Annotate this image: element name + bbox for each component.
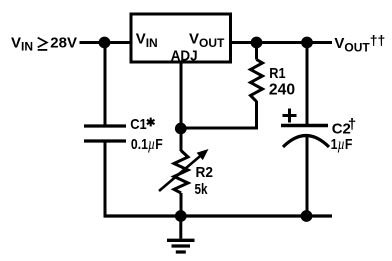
node E junction dot (ground) (175, 210, 187, 222)
svg-text:1µF: 1µF (331, 136, 353, 153)
R2 wiper arrow (159, 149, 209, 191)
capacitor C2 (281, 126, 329, 148)
wire C2 down to ground rail (306, 136, 309, 216)
C1 asterisk footnote mark (147, 118, 155, 127)
ground symbol (167, 216, 195, 252)
svg-text:VIN: VIN (136, 31, 158, 50)
svg-text:C1: C1 (130, 116, 147, 133)
svg-text:VOUT††: VOUT†† (334, 32, 385, 54)
svg-text:5k: 5k (195, 181, 209, 198)
resistor R1 (251, 60, 263, 102)
wire C1 down to ground rail (104, 141, 107, 218)
wire ADJ pin down (180, 62, 183, 129)
node C junction dot (C2) (301, 37, 313, 49)
node A junction dot (input / C1) (99, 37, 111, 49)
wire input to regulator (80, 41, 132, 44)
wire regulator output to VOUT (230, 41, 332, 44)
ground rail wire (104, 214, 333, 217)
node F junction dot (C2 / rail) (301, 210, 313, 222)
wire R1 bottom to ADJ node (181, 101, 257, 128)
wire R2 bottom to ground rail (180, 193, 183, 216)
capacitor C2 polarity plus (283, 109, 297, 123)
svg-text:240: 240 (269, 81, 295, 98)
resistor R2 (variable) (174, 151, 188, 194)
wire node B down to R1 (255, 43, 258, 60)
svg-text:ADJ: ADJ (171, 47, 198, 64)
capacitor C1 (84, 126, 126, 141)
svg-text:R2: R2 (196, 164, 214, 181)
regulator U1 box (131, 14, 231, 62)
svg-text:C2†: C2† (332, 116, 357, 137)
svg-text:0.1µF: 0.1µF (131, 136, 163, 153)
node D junction dot (ADJ / R2) (175, 123, 187, 135)
greater-or-equal symbol (38, 38, 48, 50)
node B junction dot (R1) (251, 37, 263, 49)
svg-text:R1: R1 (269, 65, 285, 82)
wire node D to R2 (180, 129, 183, 152)
wire node A down to C1 (104, 43, 107, 127)
wire node C down to C2 (306, 43, 309, 126)
